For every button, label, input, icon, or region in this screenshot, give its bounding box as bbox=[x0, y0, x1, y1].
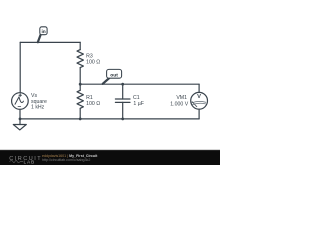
svg-text:http://circuitlab.com/c/sabg3k: http://circuitlab.com/c/sabg3k2 bbox=[42, 158, 90, 162]
svg-text:V: V bbox=[197, 94, 201, 100]
svg-text:VM1: VM1 bbox=[176, 95, 187, 101]
svg-text:out: out bbox=[110, 72, 118, 78]
svg-text:1 kHz: 1 kHz bbox=[31, 105, 45, 111]
svg-text:100 Ω: 100 Ω bbox=[86, 60, 100, 66]
svg-text:in: in bbox=[41, 29, 45, 35]
svg-text:R3: R3 bbox=[86, 53, 93, 59]
svg-text:1 µF: 1 µF bbox=[133, 101, 143, 107]
svg-text:100 Ω: 100 Ω bbox=[86, 101, 100, 107]
svg-text:LAB: LAB bbox=[24, 159, 35, 165]
svg-text:1.000 V: 1.000 V bbox=[170, 101, 188, 107]
